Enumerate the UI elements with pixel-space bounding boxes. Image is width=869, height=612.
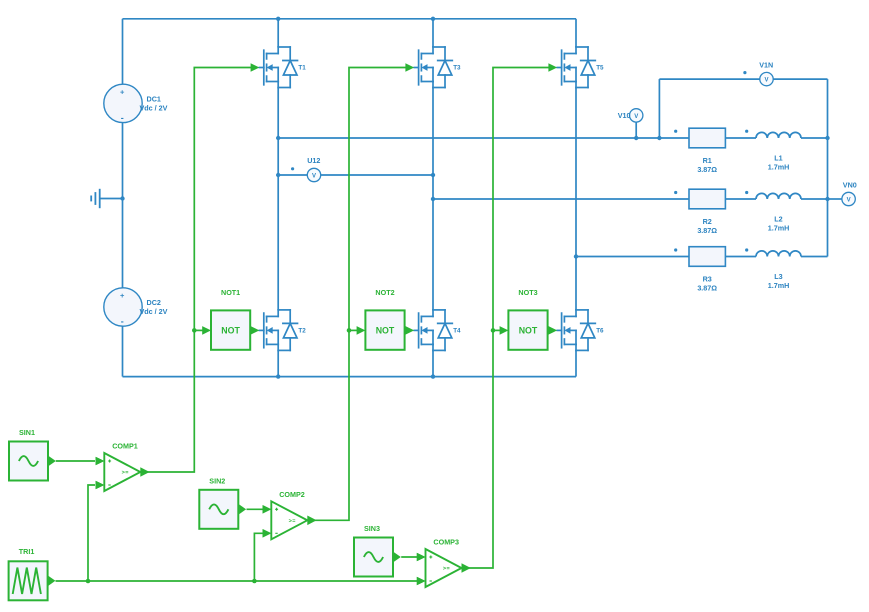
arrow into NOT2 input — [357, 326, 366, 335]
svg-text:SIN1: SIN1 — [19, 428, 35, 437]
svg-text:1.7mH: 1.7mH — [768, 224, 790, 233]
svg-text:T4: T4 — [453, 328, 461, 335]
mosfet T4 with body diode — [414, 310, 461, 351]
wire phase B output — [433, 198, 689, 200]
wire top DC+ rail — [123, 18, 577, 20]
mosfet T1 with body diode — [259, 47, 306, 88]
wire leg3 top — [575, 19, 577, 47]
junction COMP2-NOT2 branch — [347, 328, 352, 333]
junction ground-bus — [120, 196, 124, 200]
logic gate NOT2 — [365, 288, 404, 350]
wire V1N top horizontal — [659, 78, 827, 80]
svg-text:T2: T2 — [298, 328, 306, 335]
junction leg2-top rail — [431, 17, 435, 21]
wire phase C L3 to bus corner — [801, 256, 828, 258]
comparator COMP2 — [263, 490, 317, 540]
svg-text:NOT1: NOT1 — [221, 288, 240, 297]
svg-text:3.87Ω: 3.87Ω — [697, 284, 717, 293]
wire TRI1 branch to COMP1 — [88, 485, 95, 581]
svg-text:L1: L1 — [774, 154, 782, 163]
arrow into COMP1 plus input — [96, 457, 105, 466]
junction leg1-phase A — [276, 136, 280, 140]
arrow NOT3 output to T6 gate — [548, 326, 558, 335]
svg-text:1.7mH: 1.7mH — [768, 163, 790, 172]
comparator COMP3 — [417, 538, 471, 588]
wire V1N left vertical — [658, 79, 660, 138]
arrow into NOT3 input — [500, 326, 509, 335]
junction bus-phase B — [825, 197, 829, 201]
svg-text:>=: >= — [122, 470, 129, 476]
mosfet T5 with body diode — [557, 47, 604, 88]
svg-text:>=: >= — [443, 566, 450, 572]
arrow into COMP2 minus input — [263, 529, 272, 538]
wire left bus upper segment — [122, 19, 124, 84]
wire COMP2 output to T3 gate — [308, 68, 407, 521]
junction leg1-top rail — [276, 17, 280, 21]
svg-text:+: + — [120, 88, 125, 97]
wire leg3 bottom — [575, 350, 577, 376]
dc voltage source DC1 — [104, 84, 168, 123]
svg-text:T6: T6 — [596, 328, 604, 335]
svg-text:R1: R1 — [703, 156, 712, 165]
svg-text:Vdc / 2V: Vdc / 2V — [140, 307, 168, 316]
svg-text:-: - — [121, 317, 124, 327]
svg-text:DC2: DC2 — [147, 298, 161, 307]
junction leg1-bottom rail — [276, 374, 280, 378]
svg-text:NOT: NOT — [221, 326, 240, 336]
voltmeter V10 — [618, 109, 643, 138]
junction V1N-phase A — [657, 136, 661, 140]
svg-text:SIN3: SIN3 — [364, 524, 380, 533]
comparator COMP1 — [96, 442, 150, 492]
wire SIN3 to COMP3 — [401, 556, 417, 558]
arrow into COMP2 plus input — [263, 505, 272, 514]
wire leg1 top — [277, 19, 279, 47]
junction COMP3-NOT3 branch — [491, 328, 496, 333]
polarity dot R1 — [674, 130, 677, 133]
svg-text:V1N: V1N — [759, 61, 773, 70]
svg-text:T3: T3 — [453, 65, 461, 72]
svg-text:Vdc / 2V: Vdc / 2V — [140, 103, 168, 112]
wire phase B L2 to bus — [801, 198, 828, 200]
wire phase B R2 to L2 — [725, 198, 756, 200]
svg-text:V10: V10 — [618, 111, 631, 120]
svg-text:COMP1: COMP1 — [112, 442, 138, 451]
ground — [91, 189, 100, 208]
wire phase C R3 to L3 — [725, 256, 756, 258]
junction COMP1-NOT1 branch — [192, 328, 197, 333]
wire COMP3 output to T5 gate — [462, 68, 550, 569]
wire phase A R1 to L1 — [725, 137, 756, 139]
wire phase C output — [576, 256, 689, 258]
resistor R2 — [689, 189, 725, 235]
polarity dot L3 — [745, 248, 748, 251]
logic gate NOT3 — [508, 288, 547, 350]
wire leg2 top — [432, 19, 434, 47]
wire bottom DC- rail — [123, 376, 577, 378]
resistor R3 — [689, 247, 725, 293]
voltmeter U12 — [307, 156, 320, 182]
wire TRI1 output bus — [56, 580, 418, 582]
signal source TRI1 — [9, 547, 56, 601]
wire COMP1 output to T1 gate — [141, 68, 252, 473]
wire leg1 middle — [277, 88, 279, 310]
junction leg2-U12 — [431, 173, 435, 177]
arrow into COMP1 minus input — [96, 481, 105, 490]
voltmeter V1N — [759, 61, 773, 86]
wire phase A L1 to bus — [801, 137, 828, 139]
svg-text:T5: T5 — [596, 65, 604, 72]
svg-text:+: + — [120, 291, 125, 300]
svg-text:NOT2: NOT2 — [375, 288, 394, 297]
junction TRI-COMP2 branch — [252, 579, 257, 584]
wire ground to bus — [100, 198, 123, 200]
mosfet T6 with body diode — [557, 310, 604, 351]
mosfet T2 with body diode — [259, 310, 306, 351]
svg-text:L3: L3 — [774, 272, 782, 281]
junction V10-phase A — [634, 136, 638, 140]
junction leg3-phase C — [574, 254, 578, 258]
wire branch to NOT1 — [194, 329, 203, 331]
polarity dot V1N — [743, 71, 746, 74]
wire branch to NOT3 — [493, 329, 501, 331]
logic gate NOT1 — [211, 288, 250, 350]
wire SIN1 to COMP1 — [56, 460, 95, 462]
arrow NOT2 output to T4 gate — [405, 326, 415, 335]
svg-text:NOT: NOT — [519, 326, 538, 336]
svg-text:L2: L2 — [774, 215, 782, 224]
junction TRI-COMP1 branch — [86, 579, 91, 584]
inductor L2 — [756, 193, 801, 232]
arrow into COMP3 plus input — [417, 553, 426, 562]
svg-text:>=: >= — [289, 518, 296, 524]
svg-text:COMP3: COMP3 — [433, 538, 459, 547]
wire leg2 bottom — [432, 350, 434, 376]
polarity dot R2 — [674, 191, 677, 194]
wire neutral right bus — [827, 79, 829, 256]
wire leg1 bottom — [277, 350, 279, 376]
wire left bus lower segment — [122, 326, 124, 376]
polarity dot U12 — [291, 167, 294, 170]
junction leg2-phase B — [431, 197, 435, 201]
arrow into NOT1 input — [202, 326, 211, 335]
signal source SIN3 — [354, 524, 401, 577]
junction leg1-U12 — [276, 173, 280, 177]
wire leg2 middle — [432, 88, 434, 310]
svg-text:3.87Ω: 3.87Ω — [697, 165, 717, 174]
polarity dot L2 — [745, 191, 748, 194]
svg-text:-: - — [121, 113, 124, 123]
svg-text:VN0: VN0 — [843, 181, 857, 190]
junction bus-phase A — [825, 136, 829, 140]
wire TRI1 branch to COMP2 — [254, 533, 263, 581]
resistor R1 — [689, 128, 725, 174]
arrow into T3 gate — [405, 63, 414, 72]
svg-text:SIN2: SIN2 — [209, 476, 225, 485]
polarity dot L1 — [745, 130, 748, 133]
arrow into T5 gate — [548, 63, 557, 72]
svg-text:R3: R3 — [703, 275, 712, 284]
voltmeter VN0 — [828, 181, 857, 206]
svg-text:TRI1: TRI1 — [19, 547, 35, 556]
arrow into COMP3 minus input — [417, 577, 426, 586]
polarity dot R3 — [674, 248, 677, 251]
svg-text:NOT: NOT — [376, 326, 395, 336]
wire U12 measurement — [278, 174, 433, 176]
wire branch to NOT2 — [349, 329, 358, 331]
dc voltage source DC2 — [104, 288, 168, 327]
svg-text:R2: R2 — [703, 217, 712, 226]
signal source SIN2 — [199, 476, 246, 529]
svg-text:3.87Ω: 3.87Ω — [697, 226, 717, 235]
svg-text:NOT3: NOT3 — [518, 288, 537, 297]
svg-text:DC1: DC1 — [147, 94, 161, 103]
wire phase A output — [278, 137, 689, 139]
arrow into T1 gate — [251, 63, 260, 72]
wire left bus middle segment — [122, 123, 124, 288]
wire SIN2 to COMP2 — [247, 508, 264, 510]
inductor L3 — [756, 251, 801, 290]
mosfet T3 with body diode — [414, 47, 461, 88]
signal source SIN1 — [9, 428, 56, 481]
svg-text:T1: T1 — [298, 65, 306, 72]
inductor L1 — [756, 132, 801, 171]
svg-text:COMP2: COMP2 — [279, 490, 305, 499]
svg-text:1.7mH: 1.7mH — [768, 281, 790, 290]
junction leg2-bottom rail — [431, 374, 435, 378]
arrow NOT1 output to T2 gate — [250, 326, 260, 335]
wire leg3 middle — [575, 88, 577, 310]
svg-text:U12: U12 — [307, 156, 320, 165]
